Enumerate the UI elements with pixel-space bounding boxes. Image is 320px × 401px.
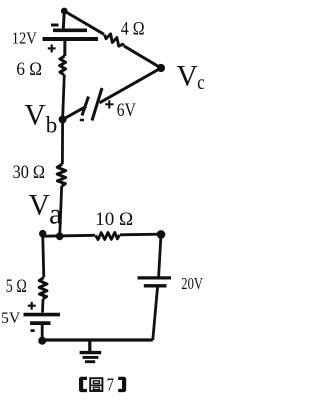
svg-text:12V: 12V xyxy=(12,29,38,48)
svg-text:6 Ω: 6 Ω xyxy=(16,59,42,80)
svg-text:4 Ω: 4 Ω xyxy=(121,18,145,39)
svg-text:a: a xyxy=(49,199,62,231)
svg-text:b: b xyxy=(46,113,58,138)
svg-text:c: c xyxy=(197,70,204,94)
svg-text:V: V xyxy=(29,189,50,221)
svg-text:6V: 6V xyxy=(117,100,136,121)
svg-text:5 Ω: 5 Ω xyxy=(6,276,27,297)
svg-text:20V: 20V xyxy=(181,274,203,293)
svg-text:V: V xyxy=(24,100,45,132)
svg-text:5V: 5V xyxy=(1,310,21,327)
svg-text:7: 7 xyxy=(107,375,114,395)
svg-text:10 Ω: 10 Ω xyxy=(95,209,133,230)
svg-text:V: V xyxy=(177,60,198,92)
svg-text:30 Ω: 30 Ω xyxy=(13,162,45,183)
